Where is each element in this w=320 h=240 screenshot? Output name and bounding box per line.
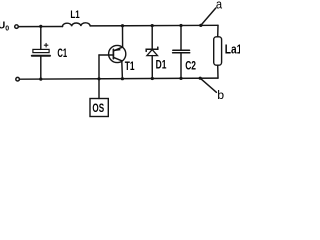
- wire lamp top lead: [217, 25, 219, 37]
- node junction T1 collector top: [121, 24, 124, 27]
- wire D1 top lead: [151, 26, 153, 49]
- svg-text:OS: OS: [92, 101, 104, 115]
- wire C1 top lead: [40, 26, 42, 49]
- transistor T1 base bar: [112, 49, 114, 58]
- capacitor C2 plate top: [173, 49, 190, 51]
- wire C2 bottom lead: [180, 53, 182, 79]
- wire base to OS vertical: [98, 55, 100, 99]
- lamp La1 tube: [214, 37, 222, 65]
- wire bottom rail: [20, 78, 219, 79]
- svg-text:L1: L1: [70, 9, 79, 21]
- svg-text:0: 0: [5, 26, 9, 33]
- svg-text:C2: C2: [185, 60, 196, 72]
- transistor T1 body: [109, 45, 126, 62]
- svg-text:C1: C1: [57, 48, 67, 60]
- terminal top-left: [15, 25, 19, 29]
- node junction C1 bottom: [39, 78, 42, 81]
- diode D1 cathode bar (zener): [146, 47, 158, 51]
- node junction C1 top: [39, 25, 42, 28]
- transistor T1 emitter (arrow to bar, PNP): [114, 47, 123, 51]
- wire C1 bottom lead: [40, 56, 42, 79]
- node junction T1 emitter bottom: [121, 77, 124, 80]
- capacitor C2 plate bottom: [173, 52, 190, 54]
- svg-text:La1: La1: [225, 42, 240, 56]
- wire D1 bottom lead: [151, 56, 153, 79]
- inductor L1: [62, 23, 90, 27]
- node junction base-OS crossing: [97, 77, 100, 80]
- wire T1 base lead: [99, 54, 113, 56]
- capacitor C1 polarity plus: [44, 43, 48, 47]
- wire top rail left segment: [18, 26, 62, 28]
- svg-text:a: a: [216, 0, 223, 11]
- node junction D1 top: [151, 24, 154, 27]
- transistor T1 collector line: [114, 58, 122, 61]
- wire top rail right segment: [90, 24, 218, 27]
- svg-text:D1: D1: [156, 59, 167, 71]
- capacitor C1 plate top (hollow): [33, 49, 49, 52]
- wire C2 top lead: [180, 26, 182, 50]
- oscillator box OS: [90, 99, 108, 117]
- node junction C2 bottom: [179, 77, 182, 80]
- wire branch to b: [200, 78, 216, 92]
- wire lamp bottom lead: [217, 65, 219, 78]
- wire branch to a: [201, 8, 216, 25]
- node junction C2 top: [179, 24, 182, 27]
- node junction D1 bottom: [151, 77, 154, 80]
- wire T1 top lead: [122, 26, 124, 47]
- svg-text:T1: T1: [125, 61, 135, 73]
- diode D1 triangle: [147, 50, 158, 56]
- node junction b-branch: [199, 77, 202, 80]
- wire T1 bottom lead: [121, 61, 124, 79]
- svg-text:b: b: [217, 88, 224, 102]
- terminal bottom-left: [16, 77, 20, 81]
- label U0: [0, 21, 9, 33]
- node junction a-branch: [199, 24, 202, 27]
- capacitor C1 plate bottom (solid): [32, 55, 50, 57]
